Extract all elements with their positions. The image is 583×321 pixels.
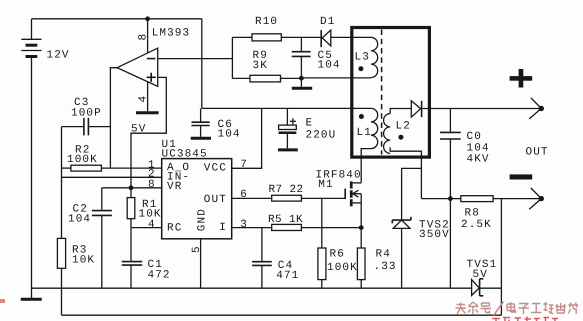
svg-text:M1: M1 <box>318 179 333 191</box>
svg-text:4: 4 <box>148 219 156 231</box>
wire pin 8 VR line <box>102 187 162 189</box>
svg-text:R7 22: R7 22 <box>269 184 304 196</box>
svg-text:GND: GND <box>197 208 209 231</box>
svg-text:472: 472 <box>148 269 171 281</box>
svg-text:R4: R4 <box>376 249 391 261</box>
wire pin 4 RC line <box>131 227 162 229</box>
svg-text:L3: L3 <box>355 51 370 63</box>
electrolytic capacitor E 220U <box>279 108 297 148</box>
op-amp U2 LM393 <box>117 48 158 86</box>
ground C6 <box>191 137 211 140</box>
ground C5 <box>292 87 312 90</box>
svg-text:5V: 5V <box>131 124 146 136</box>
svg-text:I: I <box>219 222 227 234</box>
capacitor C6 <box>192 108 210 136</box>
capacitor C0 <box>440 109 461 289</box>
ground op-amp pin 4 <box>136 111 159 114</box>
transformer core dashed line <box>381 30 383 155</box>
IC pin labels inside <box>167 162 227 235</box>
svg-text:E: E <box>306 117 314 129</box>
watermark headline pseudo-glyphs <box>456 302 579 316</box>
wire 12V feed down to VCC rail <box>201 19 203 109</box>
wire pin 3 I sense to R5 <box>232 227 272 229</box>
svg-text:220U: 220U <box>306 129 337 141</box>
resistor R8 <box>461 196 493 202</box>
watermark partial second line <box>492 317 558 321</box>
wire op-amp output down to R2 right <box>110 68 117 168</box>
resistor R4 <box>357 228 365 289</box>
winding L3 <box>371 37 378 77</box>
wire pin 7 VCC <box>232 108 262 168</box>
svg-text:R6: R6 <box>330 249 345 261</box>
svg-text:VCC: VCC <box>204 162 227 174</box>
svg-text:C0: C0 <box>467 131 482 143</box>
wire pin 1 line (R2 right to IC) <box>101 167 161 169</box>
svg-text:OUT: OUT <box>204 194 227 206</box>
wire R5 to source <box>301 227 361 229</box>
svg-text:RC: RC <box>167 223 182 235</box>
wire L3 bottom to R9 C5 ground junction <box>301 77 371 79</box>
svg-text:R10: R10 <box>255 16 278 28</box>
wire top 12V rail <box>32 18 202 20</box>
wire return line left riser <box>61 288 63 315</box>
wire VCC rail to transformer L1 <box>202 107 371 109</box>
wire pin 5 GND down <box>200 239 202 288</box>
svg-text:350V: 350V <box>419 229 450 241</box>
svg-text:4: 4 <box>138 95 150 103</box>
wire left feedback column <box>61 127 63 239</box>
svg-text:OUT: OUT <box>526 146 549 158</box>
svg-text:3: 3 <box>240 219 248 231</box>
wire pin 2 IN- line <box>62 176 162 178</box>
svg-text:4KV: 4KV <box>467 154 490 166</box>
output terminal minus arrow <box>529 188 544 209</box>
wire op-amp pin 4 to ground <box>147 82 149 112</box>
transformer T1 core <box>352 28 430 158</box>
wire gate from R7 to MOSFET <box>301 197 345 199</box>
svg-text:8: 8 <box>148 179 156 191</box>
ground battery <box>21 298 42 301</box>
svg-text:12V: 12V <box>47 50 70 62</box>
battery BT1 12V <box>21 19 41 57</box>
svg-text:.33: .33 <box>374 261 397 273</box>
output terminal plus arrow <box>529 98 544 119</box>
MOSFET M1 IRF840 <box>345 181 361 227</box>
node L1 phase dot <box>359 114 364 119</box>
svg-text:100P: 100P <box>71 107 102 119</box>
resistor R2 <box>62 165 102 171</box>
wire bottom ground rail <box>32 287 472 289</box>
resistor R7 <box>272 195 302 201</box>
wire battery negative down to bottom rail <box>31 57 33 299</box>
svg-text:104: 104 <box>218 128 241 140</box>
svg-text:UC3845: UC3845 <box>162 149 208 161</box>
wire L1 bottom to MOSFET drain <box>361 149 371 183</box>
svg-text:5V: 5V <box>473 269 488 281</box>
TVS1 transient suppressor in rail <box>472 279 502 296</box>
ground E <box>278 148 298 151</box>
wire L2 bottom down to minus line <box>390 147 421 198</box>
winding L2 <box>384 114 391 154</box>
minus sign output <box>510 174 533 179</box>
capacitor C2 <box>92 188 112 288</box>
resistor R10 <box>232 34 321 41</box>
svg-text:R5 1K: R5 1K <box>268 214 303 226</box>
IC U1 UC3845 body <box>162 159 232 239</box>
svg-text:VR: VR <box>167 181 182 193</box>
wire non-inverting input to 5V reference VR <box>131 77 166 187</box>
svg-text:10K: 10K <box>72 255 95 267</box>
svg-text:3K: 3K <box>253 60 268 72</box>
wire inverting input to divider <box>158 58 233 60</box>
wire L2 top to rectifier <box>390 109 411 114</box>
node L2 phase dot <box>398 135 403 140</box>
node C0 bottom junction on minus line <box>448 196 453 201</box>
wire bottom return line <box>62 314 502 316</box>
svg-text:LM393: LM393 <box>152 28 191 40</box>
winding L1 <box>371 108 378 148</box>
wire plus output line <box>423 108 542 110</box>
wire pin 6 OUT to R7 <box>232 197 272 199</box>
capacitor C3 <box>62 118 111 135</box>
svg-text:100K: 100K <box>67 154 98 166</box>
svg-text:104: 104 <box>318 59 341 71</box>
svg-text:8: 8 <box>138 33 150 41</box>
watermark red tick bottom left <box>0 299 5 303</box>
plus sign output <box>510 69 533 88</box>
svg-text:R8: R8 <box>465 207 480 219</box>
resistor R3 <box>57 238 65 288</box>
TVS2 transient suppressor <box>392 168 421 288</box>
node L3 phase dot <box>358 66 363 71</box>
node C5 R9 ground junction <box>299 76 304 81</box>
wire op-amp pin 8 supply <box>147 19 149 53</box>
node junction top rail to LM393 pin 8 <box>145 16 150 21</box>
svg-text:104: 104 <box>68 214 91 226</box>
resistor R6 <box>318 198 326 288</box>
node source sense junction <box>359 225 364 230</box>
wire feedback right column <box>500 199 502 316</box>
node VR junction <box>129 185 134 190</box>
resistor R1 <box>127 188 135 228</box>
wire minus output line <box>421 198 541 200</box>
svg-text:6: 6 <box>240 189 248 201</box>
diode D1 <box>321 30 371 47</box>
svg-text:2.5K: 2.5K <box>461 219 492 231</box>
svg-text:100K: 100K <box>327 262 358 274</box>
capacitor C5 <box>292 37 311 87</box>
wire divider left junction <box>231 37 233 78</box>
svg-text:D1: D1 <box>320 16 335 28</box>
capacitor C4 <box>252 228 272 289</box>
svg-text:L1: L1 <box>357 127 372 139</box>
svg-text:L2: L2 <box>396 120 411 132</box>
svg-text:7: 7 <box>240 159 248 171</box>
capacitor C1 <box>122 228 142 289</box>
diode D2 output rectifier <box>411 101 421 117</box>
resistor R9 <box>232 75 301 82</box>
resistor R5 <box>272 224 302 230</box>
IC pin numbers <box>148 159 248 253</box>
svg-text:471: 471 <box>276 270 299 282</box>
